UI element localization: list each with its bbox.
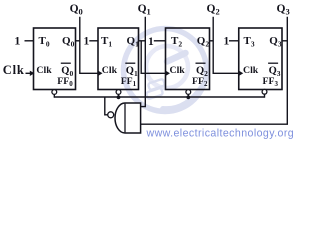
wire Q2 output stub xyxy=(210,40,214,42)
wire Clk to FF0 xyxy=(26,72,31,74)
wire Q3 vertical to NAND input xyxy=(141,17,288,124)
svg-text:1: 1 xyxy=(84,35,90,47)
svg-text:T0: T0 xyxy=(39,35,50,49)
arrowhead Clk FF0 xyxy=(30,71,35,76)
wire clear line xyxy=(54,96,264,98)
arrowhead clock FF2 xyxy=(166,71,171,76)
flip-flop FF0 xyxy=(34,28,76,94)
svg-text:T2: T2 xyxy=(171,35,182,49)
clear bubble FF3 xyxy=(262,89,267,94)
wire clear stem FF1 xyxy=(118,94,120,98)
wire Q0 terminal to FF1 clock xyxy=(80,17,98,74)
arrowhead clock FF1 xyxy=(98,71,103,76)
svg-text:Q2: Q2 xyxy=(207,3,220,16)
svg-text:Q0: Q0 xyxy=(70,3,83,16)
wire Q2 terminal to FF3 clock xyxy=(213,17,238,74)
svg-text:1: 1 xyxy=(224,35,230,47)
FF3 box xyxy=(239,28,282,90)
junction FF1 clear xyxy=(117,95,121,99)
svg-text:Clk: Clk xyxy=(243,65,259,76)
svg-text:Q3: Q3 xyxy=(269,35,282,49)
wire NAND output to clear line xyxy=(105,97,108,115)
wire clear stem FF0 xyxy=(53,94,55,98)
watermark logo xyxy=(124,29,207,112)
svg-text:T1: T1 xyxy=(101,35,112,49)
FF0 box xyxy=(34,28,76,90)
junction FF2 clear xyxy=(186,95,190,99)
wire 1 to T1 xyxy=(89,40,98,42)
svg-text:1: 1 xyxy=(14,34,20,48)
svg-text:Q2: Q2 xyxy=(197,35,210,49)
wire Q0 output stub xyxy=(76,40,80,42)
flip-flop FF3 xyxy=(239,28,282,94)
svg-text:Clk: Clk xyxy=(102,65,118,76)
flip-flop FF2 xyxy=(166,28,210,94)
flip-flop FF1 xyxy=(98,28,139,94)
wire 1 to T0 xyxy=(25,40,34,42)
clear bubble FF2 xyxy=(186,90,191,95)
NAND output bubble xyxy=(108,112,114,118)
FF2 box xyxy=(166,28,210,90)
FF1 box xyxy=(98,28,139,90)
clear bubble FF1 xyxy=(116,90,121,95)
svg-text:Q1: Q1 xyxy=(138,3,151,16)
svg-text:www.electricaltechnology.org: www.electricaltechnology.org xyxy=(146,128,295,140)
wire Q1 output stub xyxy=(139,40,146,42)
NAND body chord xyxy=(124,104,126,133)
wire 1 to T3 xyxy=(229,40,239,42)
svg-text:1: 1 xyxy=(148,36,154,48)
wire Q3 output stub xyxy=(282,40,287,42)
svg-text:Q3: Q3 xyxy=(277,3,290,16)
svg-text:Clk: Clk xyxy=(36,65,52,76)
clear bubble FF0 xyxy=(52,90,57,95)
svg-text:Clk: Clk xyxy=(170,65,186,76)
arrowhead clock FF3 xyxy=(239,71,244,76)
wire 1 to T2 xyxy=(154,40,166,42)
svg-text:T3: T3 xyxy=(244,35,255,49)
wire Q1 vertical to NAND input xyxy=(141,17,146,107)
wire clear stem FF2 xyxy=(187,94,189,98)
wire clear stem FF3 xyxy=(264,94,266,98)
svg-text:Q0: Q0 xyxy=(62,35,75,49)
svg-text:Clk: Clk xyxy=(3,63,25,77)
wire Q1 branch to FF2 clock xyxy=(141,41,165,74)
NAND gate U1 xyxy=(115,103,141,133)
